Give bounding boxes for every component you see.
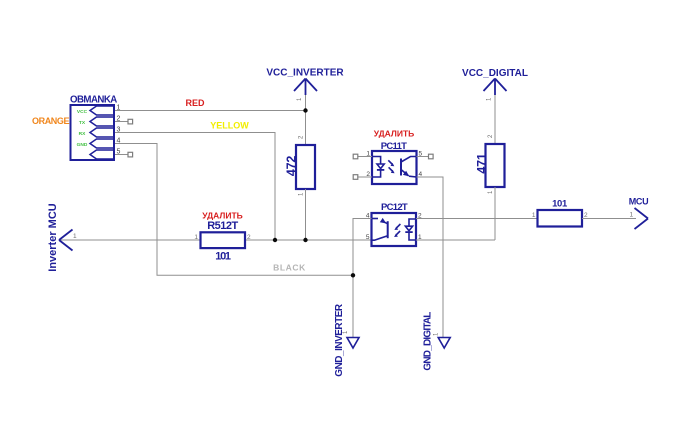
svg-text:PC12T: PC12T: [381, 202, 408, 213]
wire PC11T pin5 stub: [417, 156, 429, 158]
junction at RED/VCC: [303, 108, 307, 112]
wire 101 to MCU port: [582, 218, 636, 220]
wire pin4 BLACK net: [114, 144, 353, 276]
svg-text:4: 4: [366, 212, 370, 219]
connector J1 OBMANKA: [71, 105, 115, 160]
svg-text:PC11T: PC11T: [381, 141, 407, 152]
svg-text:ORANGE: ORANGE: [32, 116, 69, 126]
wire pin3 YELLOW net: [114, 133, 275, 241]
svg-text:1: 1: [73, 233, 77, 240]
resistor R512T: [201, 232, 246, 248]
svg-text:RED: RED: [185, 98, 205, 108]
svg-text:OBMANKA: OBMANKA: [70, 95, 117, 106]
junction pin3 net on main: [273, 238, 277, 242]
ground symbol GND_DIGITAL: [438, 338, 450, 349]
svg-text:1: 1: [194, 234, 198, 241]
no-connect square pin5: [128, 152, 133, 157]
optocoupler PC11T: [372, 151, 417, 184]
wire PC11T pin1 stub: [358, 156, 372, 158]
svg-text:101: 101: [552, 198, 568, 209]
wire pin5 stub: [114, 154, 128, 156]
connector pin chevron 1: [90, 106, 114, 115]
svg-text:MCU: MCU: [629, 196, 649, 206]
wire main horizontal net (Inverter MCU): [59, 239, 201, 241]
resistor 101 (MCU): [538, 210, 583, 227]
svg-text:4: 4: [117, 137, 121, 144]
svg-text:VCC: VCC: [77, 109, 88, 115]
optocoupler PC12T: [372, 213, 417, 246]
wire VCC_DIGITAL vertical: [494, 95, 496, 144]
svg-text:GND_DIGITAL: GND_DIGITAL: [423, 312, 434, 371]
svg-text:2: 2: [117, 115, 121, 122]
svg-text:BLACK: BLACK: [273, 262, 306, 272]
svg-text:R512T: R512T: [207, 220, 238, 232]
no-connect square PC11T pin1: [353, 154, 358, 159]
svg-text:GND_INVERTER: GND_INVERTER: [334, 303, 345, 377]
svg-text:4: 4: [419, 171, 423, 178]
ground symbol GND_INVERTER: [347, 338, 359, 349]
svg-text:2: 2: [247, 234, 251, 241]
svg-text:1: 1: [366, 150, 370, 157]
no-connect square PC11T pin5: [429, 154, 434, 159]
resistor 471: [486, 144, 505, 187]
svg-text:VCC_INVERTER: VCC_INVERTER: [266, 67, 344, 78]
wire PC12T pin2 to 101: [416, 218, 538, 220]
svg-text:5: 5: [366, 234, 370, 241]
svg-text:472: 472: [285, 156, 299, 177]
junction BLACK net: [351, 273, 355, 277]
svg-text:VCC_DIGITAL: VCC_DIGITAL: [462, 68, 528, 79]
junction 472 net on main: [303, 238, 307, 242]
wire 472 to main net: [305, 189, 307, 240]
svg-text:471: 471: [475, 153, 489, 174]
svg-text:1: 1: [418, 234, 422, 241]
wire pin1 RED net: [114, 110, 306, 112]
power symbol VCC_INVERTER: [294, 79, 317, 96]
wire PC12T pin4 to GND_INVERTER: [353, 219, 372, 338]
svg-text:RX: RX: [79, 131, 86, 137]
connector pin chevron 2: [90, 117, 114, 126]
svg-text:YELLOW: YELLOW: [210, 120, 249, 130]
svg-text:TX: TX: [79, 120, 86, 126]
power symbol VCC_DIGITAL: [484, 79, 507, 96]
port arrow MCU: [635, 208, 649, 229]
svg-text:УДАЛИТЬ: УДАЛИТЬ: [374, 129, 415, 139]
wire PC11T pin4 to GND_DIGITAL: [417, 177, 444, 338]
port arrow Inverter MCU: [59, 230, 73, 251]
wire PC11T pin2 stub: [358, 176, 372, 178]
svg-text:101: 101: [215, 251, 231, 263]
resistor 472: [296, 145, 315, 189]
svg-text:2: 2: [584, 212, 588, 219]
svg-text:2: 2: [366, 171, 370, 178]
svg-text:GND: GND: [77, 142, 88, 148]
svg-text:1: 1: [117, 104, 121, 111]
wire PC12T pin1 to 471: [416, 239, 495, 241]
svg-text:Inverter MCU: Inverter MCU: [47, 203, 59, 272]
svg-text:1: 1: [630, 212, 634, 219]
wire 471 to PC12T pin1: [494, 187, 496, 240]
no-connect square PC11T pin2: [353, 175, 358, 180]
svg-text:1: 1: [532, 212, 536, 219]
wire VCC_INVERTER vertical: [305, 95, 307, 145]
connector pin chevron 4: [90, 139, 114, 148]
svg-text:2: 2: [418, 212, 422, 219]
svg-text:3: 3: [117, 126, 121, 133]
svg-text:5: 5: [419, 150, 423, 157]
wire pin2 stub: [114, 121, 128, 123]
connector pin chevron 3: [90, 128, 114, 137]
svg-text:5: 5: [117, 148, 121, 155]
connector pin chevron 5: [90, 150, 114, 159]
no-connect square pin2: [128, 119, 133, 124]
